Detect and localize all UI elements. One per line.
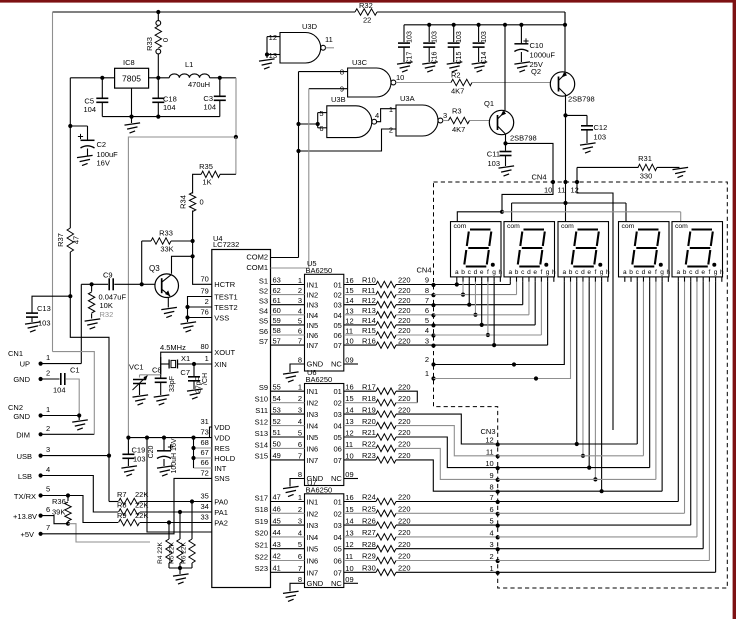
wire U3B tie to COM2 net xyxy=(299,123,318,125)
capacitor C18 104 xyxy=(157,78,159,98)
resistor R6 22K xyxy=(191,502,193,540)
resistor R15 220 xyxy=(344,334,376,336)
display DS2 digit segments xyxy=(524,228,545,230)
svg-text:U3B: U3B xyxy=(331,95,346,104)
svg-text:IN2: IN2 xyxy=(307,291,319,300)
svg-text:S22: S22 xyxy=(255,552,268,561)
ground U5 xyxy=(283,372,299,374)
wire S20 row xyxy=(271,536,305,538)
svg-text:C11: C11 xyxy=(487,150,500,159)
wire CN4 row 8 to DS2 pin b xyxy=(434,294,517,296)
wire com net pin12 xyxy=(577,182,613,430)
svg-text:220: 220 xyxy=(398,440,411,449)
svg-text:S19: S19 xyxy=(255,517,268,526)
node bus junctions xyxy=(427,23,431,27)
wire CN4 row 3 to DS1 pin g xyxy=(493,282,495,345)
display DS2 decimal point xyxy=(544,263,548,267)
node C11 junction xyxy=(503,141,507,145)
svg-text:15: 15 xyxy=(345,286,353,295)
svg-text:IN3: IN3 xyxy=(307,410,319,419)
node VDD mid junction xyxy=(145,436,149,440)
svg-text:45: 45 xyxy=(273,516,281,525)
svg-text:47: 47 xyxy=(273,493,281,502)
wire C9 row xyxy=(81,283,108,285)
capacitor C15 103 xyxy=(453,25,455,42)
CN4 pin 7 xyxy=(431,303,435,307)
svg-text:IN3: IN3 xyxy=(307,301,319,310)
wire R3 to Q1 base xyxy=(470,120,490,122)
wire S23 row xyxy=(271,571,305,573)
wire R4/R5/R6 ground bus xyxy=(169,567,192,569)
display DS3 (7-segment) xyxy=(558,222,609,277)
svg-text:S10: S10 xyxy=(255,394,268,403)
svg-text:R6 22K: R6 22K xyxy=(181,541,188,563)
wire VSS row xyxy=(188,317,212,319)
wire CN3 row 12 to DS4 pin c xyxy=(498,443,638,445)
svg-text:CN2: CN2 xyxy=(8,403,23,412)
wire S7 row xyxy=(271,344,305,346)
wire COM1 vertical xyxy=(308,89,310,268)
svg-text:4: 4 xyxy=(46,465,50,474)
capacitor C3 104 xyxy=(219,78,221,96)
ground U7 xyxy=(283,591,299,593)
svg-text:220: 220 xyxy=(398,540,411,549)
svg-text:62: 62 xyxy=(273,286,281,295)
wire VDD to U4 lower pin xyxy=(147,438,212,532)
ground VC1 xyxy=(133,395,149,397)
svg-text:com: com xyxy=(454,223,467,230)
wire +13.8V to R36 bottom xyxy=(41,516,68,524)
svg-text:R16: R16 xyxy=(362,336,376,345)
node ground bus junctions xyxy=(129,115,133,119)
svg-text:03: 03 xyxy=(333,410,341,419)
svg-text:61: 61 xyxy=(273,296,281,305)
ground TEST/VSS xyxy=(187,318,189,323)
svg-text:2: 2 xyxy=(298,505,302,514)
wire R19 to CN3 pin 12 xyxy=(396,414,498,444)
svg-text:13: 13 xyxy=(345,306,353,315)
svg-text:47: 47 xyxy=(72,236,81,244)
svg-text:12: 12 xyxy=(345,316,353,325)
wire CN4 row 8 to DS1 pin b xyxy=(462,282,464,295)
svg-text:TEST2: TEST2 xyxy=(214,303,237,312)
svg-text:06: 06 xyxy=(333,331,341,340)
wire CN3 row 8 to DS4 pin g xyxy=(498,490,662,492)
CN4 pin 1 xyxy=(431,376,435,380)
svg-text:PA1: PA1 xyxy=(214,508,228,517)
resistor R2 4K7 xyxy=(451,79,472,85)
resistor R16 220 xyxy=(344,344,376,346)
wire Q3 collector link xyxy=(172,256,193,274)
wire Q2 emitter xyxy=(564,12,566,73)
ground C2 xyxy=(77,155,93,157)
svg-text:4: 4 xyxy=(425,326,429,335)
svg-text:22K: 22K xyxy=(135,490,148,499)
display DS1 decimal point xyxy=(491,263,495,267)
svg-text:R5 22K: R5 22K xyxy=(169,541,176,563)
svg-text:S4: S4 xyxy=(259,307,268,316)
svg-text:31: 31 xyxy=(200,417,208,426)
wire Q1 emitter riser xyxy=(504,25,506,111)
wire XIN row xyxy=(178,363,212,365)
svg-text:a: a xyxy=(676,269,680,276)
resistor R21 220 xyxy=(344,436,376,438)
wire XOUT to crystal circuit xyxy=(161,352,212,375)
svg-text:51: 51 xyxy=(273,428,281,437)
svg-text:01: 01 xyxy=(333,387,341,396)
svg-text:10: 10 xyxy=(345,337,353,346)
svg-text:8: 8 xyxy=(298,470,302,479)
svg-text:g: g xyxy=(492,269,496,276)
svg-text:R33: R33 xyxy=(145,37,154,51)
svg-text:R7: R7 xyxy=(117,490,127,499)
resistor R35 1K xyxy=(220,173,236,175)
wire S13 row xyxy=(271,436,305,438)
svg-text:+5V: +5V xyxy=(20,530,34,539)
svg-text:C12: C12 xyxy=(594,123,608,132)
wire 13.8V rail to IC8 xyxy=(70,77,114,79)
svg-text:104: 104 xyxy=(203,103,216,112)
svg-text:S23: S23 xyxy=(255,564,268,573)
resistor R23 220 xyxy=(344,459,376,461)
wire CN3 row 10 to DS4 pin e xyxy=(498,467,650,469)
svg-text:4: 4 xyxy=(375,111,379,120)
svg-text:59: 59 xyxy=(273,316,281,325)
resistor R33 33K xyxy=(142,240,151,242)
wire U3A pin2 to COM2 net xyxy=(299,129,397,151)
wire S10 row xyxy=(271,402,305,404)
svg-text:R17: R17 xyxy=(362,382,376,391)
svg-text:57: 57 xyxy=(273,336,281,345)
svg-text:R2: R2 xyxy=(451,71,461,80)
svg-text:2: 2 xyxy=(46,424,50,433)
svg-text:IN4: IN4 xyxy=(307,422,319,431)
wire regulator ground bus xyxy=(102,116,220,118)
ground C11 xyxy=(499,166,515,168)
svg-text:54: 54 xyxy=(273,394,281,403)
svg-text:S13: S13 xyxy=(255,429,268,438)
svg-text:2: 2 xyxy=(389,126,393,135)
resistor R17 220 xyxy=(344,390,376,392)
node C13 junction xyxy=(68,294,72,298)
CN4 pin 2 xyxy=(431,362,435,366)
svg-text:CN4: CN4 xyxy=(532,173,547,182)
svg-text:R35: R35 xyxy=(199,162,213,171)
svg-text:103: 103 xyxy=(407,31,414,43)
svg-text:103: 103 xyxy=(594,133,607,142)
svg-text:1: 1 xyxy=(389,105,393,114)
wire COM1 to gates xyxy=(271,267,309,269)
node HOLD junction xyxy=(191,456,195,460)
svg-text:100uH 16V: 100uH 16V xyxy=(171,438,178,473)
svg-text:7: 7 xyxy=(298,564,302,573)
svg-text:h: h xyxy=(552,269,556,276)
svg-text:04: 04 xyxy=(333,422,341,431)
wire R29 to CN3 pin 2 xyxy=(396,560,498,562)
wire R33 left to Q3 base xyxy=(141,241,143,284)
svg-text:d: d xyxy=(474,269,478,276)
capacitor C12 103 xyxy=(586,115,588,125)
svg-text:103: 103 xyxy=(487,159,500,168)
svg-text:33K: 33K xyxy=(160,245,173,254)
svg-text:R34: R34 xyxy=(179,195,188,209)
svg-text:R8: R8 xyxy=(117,501,127,510)
resistor R20 220 xyxy=(344,425,376,427)
svg-text:R19: R19 xyxy=(362,405,376,414)
resistor R27 220 xyxy=(344,536,376,538)
svg-text:COM2: COM2 xyxy=(246,253,268,262)
svg-text:14: 14 xyxy=(345,296,353,305)
svg-text:50: 50 xyxy=(273,440,281,449)
wire S17 row xyxy=(271,501,305,503)
svg-text:UP: UP xyxy=(20,360,30,369)
resistor R34 0 xyxy=(189,193,195,212)
svg-text:SNS: SNS xyxy=(214,474,229,483)
wire CN4 row 4 to DS1 pin f xyxy=(487,282,489,335)
node R4 tap on PA2 xyxy=(167,520,171,524)
svg-text:R22: R22 xyxy=(362,440,376,449)
svg-text:S14: S14 xyxy=(255,440,268,449)
svg-text:d: d xyxy=(642,269,646,276)
svg-text:b: b xyxy=(461,269,465,276)
svg-text:2: 2 xyxy=(490,552,494,561)
wire analog rail VC1/C8 xyxy=(140,374,161,376)
wire S18 row xyxy=(271,512,305,514)
svg-text:68: 68 xyxy=(200,438,208,447)
svg-text:220: 220 xyxy=(398,286,411,295)
node Q3 base junction xyxy=(140,282,144,286)
display DS5 digit segments xyxy=(692,228,713,230)
wire CN4 pin2 to DS3 pin a xyxy=(434,282,565,365)
svg-text:R28: R28 xyxy=(362,540,376,549)
svg-text:220: 220 xyxy=(398,336,411,345)
node tie junctions xyxy=(296,122,300,126)
svg-text:11: 11 xyxy=(325,35,333,44)
svg-text:12: 12 xyxy=(345,429,353,438)
svg-text:67: 67 xyxy=(200,448,208,457)
svg-text:e: e xyxy=(701,269,705,276)
svg-text:330: 330 xyxy=(640,172,653,181)
svg-text:b: b xyxy=(629,269,633,276)
svg-text:76: 76 xyxy=(200,308,208,317)
capacitor C19 103 xyxy=(127,438,129,454)
svg-text:16: 16 xyxy=(345,493,353,502)
wire com net11 horizontal xyxy=(512,202,626,204)
svg-text:12: 12 xyxy=(485,436,493,445)
node R32 junction xyxy=(90,282,94,286)
CN3 pin 3 xyxy=(496,547,500,551)
svg-text:Q3: Q3 xyxy=(149,264,160,273)
node C2 junction xyxy=(68,124,72,128)
wire CN4 row 6 to DS2 pin d xyxy=(434,314,529,316)
svg-text:220: 220 xyxy=(398,428,411,437)
svg-text:b: b xyxy=(683,269,687,276)
wire U5 GND xyxy=(290,364,305,372)
wire COM2 vertical xyxy=(298,72,300,258)
svg-text:g: g xyxy=(600,269,604,276)
svg-text:6: 6 xyxy=(490,505,494,514)
ground R4R5R6 xyxy=(179,568,181,574)
node USB junction xyxy=(107,454,111,458)
svg-text:R18: R18 xyxy=(362,394,376,403)
svg-text:com: com xyxy=(507,223,520,230)
svg-text:2: 2 xyxy=(205,297,209,306)
wire 5V down to R35 xyxy=(235,137,237,174)
svg-text:73: 73 xyxy=(200,428,208,437)
wire R15 to CN4 pin 4 xyxy=(396,334,434,336)
svg-text:IN1: IN1 xyxy=(307,498,319,507)
IC U5 BA6250 xyxy=(305,274,344,371)
CN3 pin 11 xyxy=(496,454,500,458)
svg-text:2: 2 xyxy=(298,286,302,295)
svg-text:8: 8 xyxy=(425,286,429,295)
svg-text:VDD: VDD xyxy=(214,423,230,432)
svg-text:R12: R12 xyxy=(362,296,376,305)
svg-text:5: 5 xyxy=(298,540,302,549)
svg-text:CN1: CN1 xyxy=(8,349,23,358)
node CN2 ground junction xyxy=(77,413,81,417)
wire R20 to CN3 pin 11 xyxy=(396,426,498,456)
svg-text:104: 104 xyxy=(163,103,176,112)
svg-text:C13: C13 xyxy=(37,304,51,313)
svg-text:HCTR: HCTR xyxy=(214,280,235,289)
node C7 tap xyxy=(192,362,196,366)
svg-text:41: 41 xyxy=(273,564,281,573)
svg-text:14: 14 xyxy=(345,517,353,526)
svg-text:11: 11 xyxy=(345,440,353,449)
svg-text:4: 4 xyxy=(298,417,302,426)
capacitor C9 0.047uF xyxy=(108,278,110,290)
svg-text:a: a xyxy=(623,269,627,276)
svg-text:Q1: Q1 xyxy=(484,99,494,108)
display DS5 pin stubs xyxy=(677,277,679,282)
svg-text:R14: R14 xyxy=(362,316,376,325)
ground CN2 xyxy=(78,416,80,421)
display DS4 decimal point xyxy=(659,263,663,267)
svg-text:f: f xyxy=(540,269,542,276)
svg-text:1: 1 xyxy=(298,493,302,502)
svg-text:07: 07 xyxy=(333,568,341,577)
CN3 pin 1 xyxy=(496,571,500,575)
svg-text:220: 220 xyxy=(398,417,411,426)
capacitor C17 103 xyxy=(403,25,405,42)
svg-text:220: 220 xyxy=(398,552,411,561)
wire R22 to CN3 pin 9 xyxy=(396,448,498,479)
svg-text:220: 220 xyxy=(398,394,411,403)
node TEST2 junction xyxy=(185,305,189,309)
svg-text:TEST1: TEST1 xyxy=(214,292,237,301)
wire S3 row xyxy=(271,304,305,306)
svg-text:13: 13 xyxy=(345,528,353,537)
wire R30 to CN3 pin 1 xyxy=(396,571,498,573)
node C12 junction xyxy=(563,113,567,117)
capacitor C1 104 xyxy=(60,373,62,385)
IC U7 BA6250 xyxy=(305,494,344,588)
svg-text:01: 01 xyxy=(333,281,341,290)
svg-text:XIN: XIN xyxy=(214,360,227,369)
display DS3 digit segments xyxy=(578,228,599,230)
svg-text:3: 3 xyxy=(298,406,302,415)
svg-text:R3: R3 xyxy=(452,107,462,116)
svg-text:5: 5 xyxy=(298,429,302,438)
wire TEST1/TEST2 tie xyxy=(188,297,212,318)
svg-text:DIM: DIM xyxy=(16,431,30,440)
svg-text:R25: R25 xyxy=(362,505,376,514)
wire C12 branch xyxy=(566,114,588,116)
wire R11 to CN4 pin 8 xyxy=(396,294,434,296)
ground R32 xyxy=(85,319,101,321)
svg-text:34: 34 xyxy=(200,502,208,511)
wire DS3 pin d to CN3 row 11 xyxy=(582,282,584,456)
svg-text:PA2: PA2 xyxy=(214,518,228,527)
svg-text:C20: C20 xyxy=(148,445,155,458)
wire TXRX to R9 xyxy=(41,496,118,523)
svg-text:h: h xyxy=(606,269,610,276)
node U3D input tie xyxy=(265,52,269,56)
svg-text:R9: R9 xyxy=(117,511,127,520)
svg-text:e: e xyxy=(533,269,537,276)
svg-text:1K: 1K xyxy=(202,178,211,187)
svg-text:IN7: IN7 xyxy=(307,456,319,465)
resistor R19 220 xyxy=(344,413,376,415)
svg-text:220: 220 xyxy=(398,493,411,502)
svg-text:22: 22 xyxy=(363,16,371,25)
svg-text:TX/RX: TX/RX xyxy=(14,492,36,501)
svg-text:R33: R33 xyxy=(159,229,173,238)
svg-text:04: 04 xyxy=(333,533,341,542)
svg-text:1: 1 xyxy=(490,564,494,573)
svg-text:IC8: IC8 xyxy=(123,58,135,67)
svg-text:55: 55 xyxy=(273,382,281,391)
capacitor C10 1000uF 25V xyxy=(520,25,522,44)
svg-text:4K7: 4K7 xyxy=(452,125,465,134)
wire Q1 collector xyxy=(505,134,507,144)
capacitor C11 103 xyxy=(505,143,507,150)
svg-text:GND: GND xyxy=(307,579,324,588)
svg-text:S17: S17 xyxy=(255,493,268,502)
wire R14 to CN4 pin 5 xyxy=(396,324,434,326)
svg-text:R20: R20 xyxy=(362,417,376,426)
svg-text:5: 5 xyxy=(490,517,494,526)
ground C20 xyxy=(157,466,173,468)
wire U6 GND xyxy=(290,479,305,487)
svg-text:R30: R30 xyxy=(362,564,376,573)
resistor R29 220 xyxy=(344,560,376,562)
CN3 pin 4 xyxy=(496,535,500,539)
svg-text:6: 6 xyxy=(319,124,323,133)
svg-text:43: 43 xyxy=(273,540,281,549)
ground C12 xyxy=(580,143,596,145)
svg-text:09: 09 xyxy=(345,356,353,365)
svg-text:R24: R24 xyxy=(362,493,376,502)
wire S21 row xyxy=(271,548,305,550)
wire S2 row xyxy=(271,294,305,296)
svg-text:BA6250: BA6250 xyxy=(306,266,333,275)
wire vertical to HCTR pin xyxy=(193,256,212,284)
ground Q3 xyxy=(161,307,177,309)
svg-text:IN5: IN5 xyxy=(307,545,319,554)
svg-text:IN1: IN1 xyxy=(307,387,319,396)
svg-text:33pF: 33pF xyxy=(169,376,176,392)
svg-text:1: 1 xyxy=(205,354,209,363)
svg-text:S11: S11 xyxy=(255,406,268,415)
wire UP net vertical xyxy=(80,284,82,363)
node C19 junction xyxy=(126,436,130,440)
display DS2 pin stubs xyxy=(509,277,511,282)
svg-text:Q2: Q2 xyxy=(531,67,541,76)
wire to C2 xyxy=(70,125,87,127)
svg-text:a: a xyxy=(562,269,566,276)
